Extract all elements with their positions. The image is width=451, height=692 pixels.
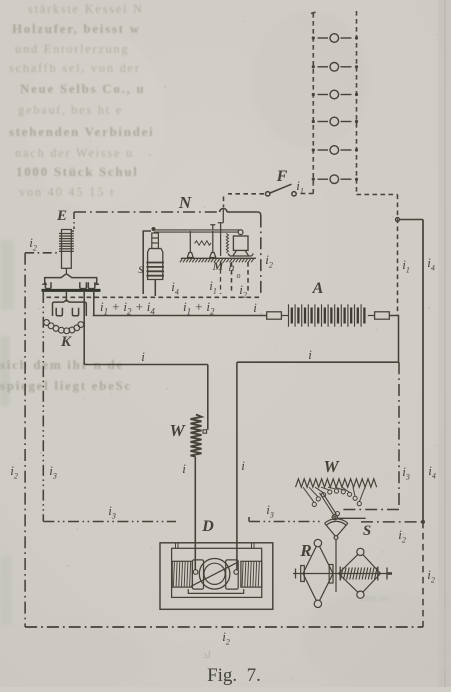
svg-text:W: W — [323, 457, 340, 476]
svg-text:spiegel liegt ebeSc: spiegel liegt ebeSc — [0, 378, 132, 393]
right fly diamond — [339, 548, 381, 598]
solenoid bottom wire — [154, 280, 156, 297]
svg-text:1000 Stück Schul: 1000 Stück Schul — [16, 164, 139, 179]
left inner wire i3 vertical — [42, 292, 44, 522]
arm to S — [338, 517, 366, 519]
left fly diamond — [303, 539, 333, 607]
wire i1 vertical (dashed) — [397, 195, 399, 316]
svg-text:A: A — [312, 280, 324, 297]
svg-text:o: o — [237, 271, 241, 280]
right brush contact — [234, 570, 239, 575]
svg-text:gebaut, bes ht e: gebaut, bes ht e — [18, 103, 123, 117]
dashed drop i1 inside box — [231, 262, 233, 294]
armature circle h — [238, 230, 243, 235]
rheostat W sawtooth — [296, 479, 377, 487]
svg-text:stehenden Verbindei: stehenden Verbindei — [9, 124, 154, 139]
motor right brush holder — [226, 560, 239, 589]
wiper arm — [320, 491, 337, 515]
svg-text:Neue Selbs Co., u: Neue Selbs Co., u — [20, 81, 145, 96]
svg-text:i: i — [241, 458, 245, 473]
governor stem — [335, 539, 337, 592]
pole-changer upper rail — [42, 274, 99, 285]
svg-text:E: E — [56, 208, 67, 224]
resistor A right terminal — [375, 312, 390, 319]
dashed drop under contact post — [220, 261, 222, 294]
svg-text:K: K — [60, 334, 72, 350]
relay box right edge (i2 drop) — [260, 216, 262, 296]
magnet stand — [228, 250, 253, 256]
wiper pivot — [335, 511, 339, 515]
relay lever rod — [154, 230, 239, 232]
spring on shaft — [340, 567, 378, 581]
shaft end caps — [296, 568, 388, 580]
pole-changer bar (thick) — [42, 289, 101, 292]
rheostat taps and studs — [303, 487, 365, 506]
left T wire i — [84, 364, 208, 366]
wire i3 to wiper — [341, 509, 399, 511]
right wire down to motor — [236, 362, 238, 570]
svg-text:ɔJ: ɔJ — [203, 650, 211, 660]
relay frame left wire — [143, 231, 151, 294]
electromagnet M block — [233, 236, 248, 250]
svg-text:schaffb sel, von der: schaffb sel, von der — [9, 61, 141, 75]
i3 horizontal (right part) — [249, 517, 322, 522]
relay pillar 2 — [210, 231, 216, 258]
bleed-through text (verso page) — [0, 2, 154, 393]
dashed drop i2 inside box — [247, 262, 249, 294]
rotor diagonal — [191, 563, 237, 587]
svg-text:S: S — [363, 523, 371, 539]
battery cell B3 — [312, 90, 358, 99]
battery cell B6 — [312, 175, 358, 184]
vertical spring coil — [226, 234, 228, 253]
top bus wire (dash-dot) from E to relay box corner — [74, 211, 220, 213]
svg-text:R: R — [299, 541, 311, 560]
main bus wire i — [93, 315, 267, 317]
motor rotor — [199, 559, 230, 590]
motor left field coil — [172, 561, 192, 587]
resistor W (zigzag) — [191, 415, 202, 457]
relay pillar 1 — [187, 231, 193, 258]
svg-text:N: N — [178, 193, 192, 212]
junction dot i4/i2 — [421, 520, 425, 524]
lower contact yoke — [53, 300, 87, 316]
tap square on W — [203, 430, 207, 433]
svg-text:i: i — [182, 461, 186, 476]
coil K (loop arc) — [44, 320, 84, 334]
wire from bus to element E top — [71, 212, 74, 231]
left outer wire i2 — [24, 253, 26, 627]
motor yoke — [188, 589, 243, 593]
svg-text:W: W — [169, 421, 186, 440]
motor right field coil — [241, 561, 262, 587]
svg-text:und Entorlerzung: und Entorlerzung — [15, 42, 129, 56]
motor left brush holder — [192, 560, 203, 589]
wire: battery right leg to i1 vertical — [357, 194, 398, 196]
svg-text:i: i — [308, 347, 312, 362]
svg-text:M: M — [212, 259, 224, 273]
contact post (from switch F) — [218, 208, 224, 257]
solenoid s coil — [146, 249, 164, 280]
governor shaft — [293, 573, 392, 575]
svg-text:D: D — [201, 518, 214, 535]
motor inner case — [172, 548, 262, 597]
wire hop over switch drop — [220, 208, 227, 212]
shaft right end detail — [387, 572, 392, 575]
relay ground hatch — [180, 258, 256, 262]
pole-changer center stem — [65, 292, 67, 302]
wire down to W — [207, 365, 209, 430]
svg-text:i: i — [253, 300, 257, 315]
relay spring — [195, 241, 212, 245]
relay box bottom dashed edge — [47, 296, 263, 298]
svg-text:i: i — [141, 349, 145, 364]
wire: switch to relay drop (i1 feed) — [224, 194, 265, 207]
resistor A left terminal — [267, 312, 282, 319]
junction circle at i4 takeoff — [396, 218, 400, 222]
battery cell B4 — [312, 117, 358, 126]
left brush contact — [193, 570, 198, 575]
svg-text:stärkste Kessel N: stärkste Kessel N — [28, 2, 144, 16]
svg-text:s: s — [138, 262, 144, 277]
left bearing blocks — [301, 566, 305, 582]
bottom bus wire i2 — [25, 626, 423, 628]
svg-text:Holzufer, beisst w: Holzufer, beisst w — [12, 21, 141, 36]
return wire i (right) — [237, 361, 399, 363]
svg-text:F: F — [276, 168, 288, 185]
wire i4 top branch — [400, 219, 424, 221]
sector pendulum — [325, 519, 348, 540]
wire i2 from governor arm to i4 junction — [361, 521, 423, 523]
switch F — [266, 184, 297, 196]
battery cell column B (element chain) — [311, 11, 357, 195]
svg-text:von 40 45 15 t: von 40 45 15 t — [19, 185, 115, 199]
svg-text:Fig. 7.: Fig. 7. — [207, 665, 261, 686]
contact stub above rod — [210, 225, 215, 230]
battery cell B1 — [312, 34, 358, 43]
svg-text:nach der Weisse u: nach der Weisse u — [15, 146, 134, 160]
wire i4 solid vertical — [422, 220, 424, 522]
pole-changer brush contacts — [45, 282, 95, 288]
wire A right to corner — [389, 316, 398, 363]
element E (resistance tube) — [59, 230, 74, 274]
wire: battery left leg to switch — [298, 193, 313, 195]
battery cell B2 — [312, 63, 358, 72]
resistor A body — [281, 304, 374, 326]
solenoid s core — [152, 233, 159, 249]
wire i2 down right — [422, 522, 424, 627]
commutator drop wires — [84, 292, 94, 365]
wire i2 stub to element E — [25, 252, 59, 254]
i3 horizontal to governor (left part) — [43, 521, 176, 523]
wire W to motor — [194, 457, 196, 571]
battery cell B5 — [312, 146, 358, 155]
motor case ticks — [176, 544, 255, 549]
motor outer case — [160, 543, 273, 610]
wire i3 right vertical — [398, 362, 400, 508]
